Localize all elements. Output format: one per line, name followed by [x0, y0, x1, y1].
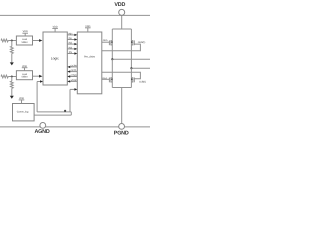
wire staircase comm bus to logic and pre-driver: [37, 80, 77, 112]
wire logic to pre-driver 4: [67, 46, 77, 50]
wire R1 to level shifter 1: [8, 40, 16, 42]
svg-text:Shifter: Shifter: [21, 76, 27, 79]
wire OUT2: [131, 67, 150, 69]
resistor R1 input 1: [1, 39, 8, 42]
VDD tap for logic: [52, 26, 58, 33]
wire gate GLA from pre-driver: [102, 78, 110, 80]
svg-text:VDSF: VDSF: [71, 79, 78, 82]
svg-text:Logic: Logic: [51, 57, 59, 61]
ground arrow 1: [10, 62, 14, 65]
comm logic block U5: [13, 104, 35, 121]
level shifter U2 text: [21, 73, 27, 79]
ground arrow 2: [10, 96, 14, 99]
wire logic to pre-driver 5: [67, 51, 77, 55]
AGND terminal circle: [40, 123, 46, 129]
svg-text:VDD: VDD: [23, 30, 28, 33]
svg-text:GLA: GLA: [102, 77, 107, 80]
node OUT2 junction: [130, 67, 132, 69]
wire bottom ground rail: [0, 126, 151, 128]
wire top VDD rail: [0, 14, 151, 16]
node OUT1 junction: [111, 58, 113, 60]
svg-text:Pre_drive: Pre_drive: [84, 56, 96, 59]
wire logic to pre-driver 3: [67, 42, 77, 46]
VDD tap for U2: [22, 65, 28, 71]
wire R3 to level shifter 2: [8, 76, 16, 78]
wire logic to pre-driver 1: [67, 32, 77, 36]
node input 2 junction: [11, 75, 13, 77]
svg-text:GLB(1): GLB(1): [139, 80, 146, 83]
transistor Q1 high-side A: [109, 29, 112, 59]
svg-text:AGND: AGND: [34, 129, 49, 135]
resistor R4 pulldown 2: [10, 77, 13, 96]
wire pre-driver to logic fb1: [67, 64, 77, 68]
svg-text:OTSD: OTSD: [71, 74, 78, 77]
transistor Q4 low-side B: [131, 68, 134, 87]
svg-text:Shifter: Shifter: [21, 41, 27, 44]
node on comm bus: [64, 110, 66, 112]
svg-text:EN: EN: [69, 51, 72, 54]
wire U1 output arrow to logic: [33, 40, 41, 42]
PGND terminal circle: [119, 124, 125, 130]
svg-text:Level: Level: [22, 73, 28, 76]
svg-text:OCPH: OCPH: [70, 64, 77, 67]
svg-text:VDD: VDD: [114, 2, 125, 8]
VDD tap for U1: [22, 30, 28, 36]
level shifter U1 box: [16, 36, 32, 45]
wire stem to PGND: [121, 88, 123, 127]
resistor R3 input 2: [1, 75, 8, 78]
node input 1 junction: [11, 39, 13, 41]
wire gate GLB routed loop: [102, 72, 141, 79]
VDD terminal circle: [119, 9, 125, 15]
svg-text:INH: INH: [68, 32, 72, 35]
wire logic to pre-driver 2: [67, 37, 77, 41]
level shifter U2 box: [16, 71, 32, 80]
svg-text:Level: Level: [22, 38, 28, 41]
VDD tap for comm logic: [19, 97, 25, 104]
transistor Q2 high-side B: [131, 29, 134, 68]
wire gate GHB routed loop: [102, 44, 141, 51]
level shifter U1 text: [21, 38, 27, 44]
transistor Q3 low-side A: [109, 59, 112, 87]
wire VDD stem down to bridge: [121, 15, 123, 28]
wire low-side source bar: [112, 87, 131, 89]
wire pre-driver to logic fb4: [67, 79, 77, 83]
logic block U3: [43, 32, 67, 85]
VDD tap for pre-driver: [85, 25, 91, 32]
svg-text:Comm_log: Comm_log: [17, 110, 29, 113]
svg-text:OCPL: OCPL: [71, 69, 78, 72]
wire OUT1: [112, 58, 150, 60]
pre-driver block U4: [77, 32, 102, 94]
wire comm logic output to bus: [34, 112, 71, 115]
wire pre-driver to logic fb2: [67, 69, 77, 73]
svg-text:GHB(1): GHB(1): [138, 41, 146, 44]
wire gate GHA from pre-driver: [102, 41, 110, 43]
svg-text:PGND: PGND: [114, 131, 129, 137]
svg-text:GHA: GHA: [103, 39, 108, 42]
wire U2 output arrow to logic: [33, 75, 41, 77]
resistor R2 pulldown 1: [10, 41, 13, 63]
wire pre-driver to logic fb3: [67, 74, 77, 78]
wire high-side drain bar: [112, 28, 131, 30]
